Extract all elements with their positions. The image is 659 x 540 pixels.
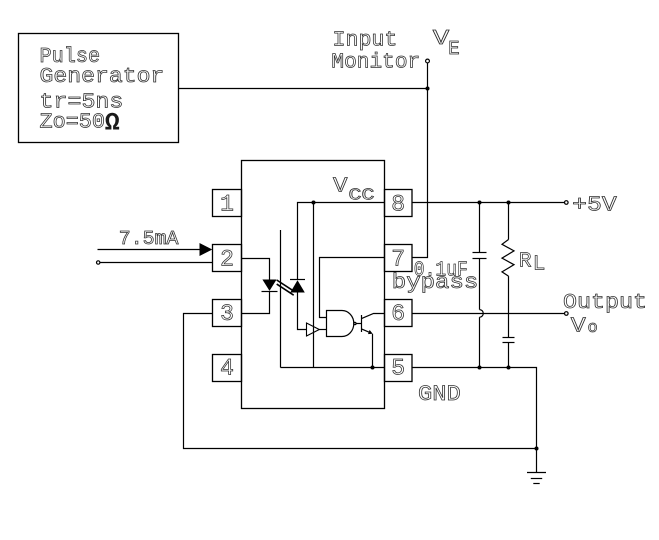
svg-text:bypass: bypass [392, 272, 479, 295]
svg-text:7: 7 [391, 246, 405, 272]
svg-text:Generator: Generator [40, 66, 165, 89]
svg-text:V: V [571, 316, 586, 339]
svg-text:4: 4 [220, 356, 234, 382]
svg-text:V: V [333, 175, 348, 198]
svg-text:1: 1 [220, 191, 234, 217]
svg-text:8: 8 [391, 191, 405, 217]
svg-text:Ω: Ω [105, 109, 120, 138]
svg-text:7.5mA: 7.5mA [119, 228, 179, 250]
svg-text:L: L [533, 254, 546, 277]
svg-text:6: 6 [391, 301, 405, 327]
svg-text:E: E [448, 38, 459, 60]
svg-text:o: o [588, 319, 598, 338]
svg-text:2: 2 [220, 246, 234, 272]
svg-text:+5V: +5V [572, 195, 617, 218]
svg-text:GND: GND [418, 382, 461, 407]
svg-text:Output: Output [563, 292, 647, 315]
svg-text:R: R [519, 251, 532, 274]
svg-text:5: 5 [391, 356, 405, 382]
svg-text:Zo=50: Zo=50 [40, 112, 106, 135]
svg-text:Input: Input [333, 29, 398, 52]
svg-text:Monitor: Monitor [331, 52, 420, 75]
svg-text:3: 3 [220, 301, 234, 327]
